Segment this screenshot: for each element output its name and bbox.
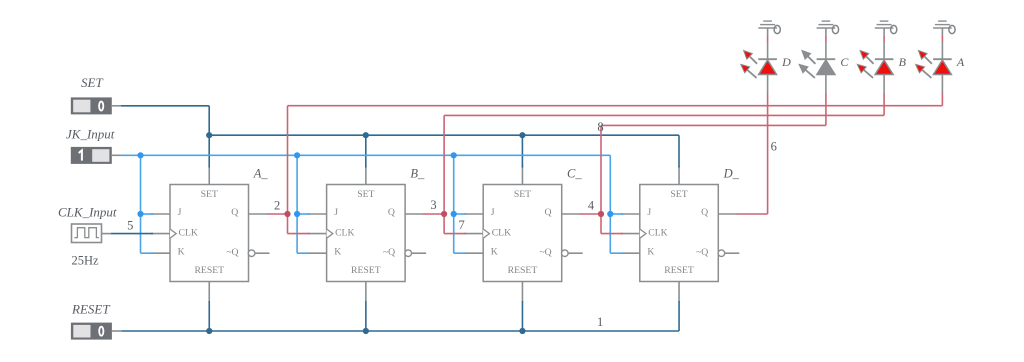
wire RESET rise to FF D bbox=[678, 301, 680, 331]
switch RESET (S3) bbox=[71, 323, 121, 339]
svg-text:K: K bbox=[647, 247, 654, 258]
svg-text:4: 4 bbox=[588, 198, 595, 212]
wire net2 top horizontal to LED A bbox=[288, 105, 943, 107]
wire net3 into CLK_C bbox=[444, 233, 466, 235]
wire net3 rise to LED B bbox=[883, 93, 885, 115]
wire JK to K pin FF A bbox=[141, 252, 154, 254]
switch SET (S1) bbox=[71, 98, 121, 114]
wire net2 into CLK_B bbox=[288, 233, 310, 235]
LED D (LED4) bbox=[741, 41, 777, 93]
svg-text:D: D bbox=[781, 55, 791, 69]
svg-text:A: A bbox=[956, 55, 965, 69]
svg-text:7: 7 bbox=[458, 218, 464, 232]
svg-text:SET: SET bbox=[81, 75, 103, 90]
svg-text:5: 5 bbox=[127, 219, 133, 233]
wire RESET bus horizontal bbox=[122, 330, 680, 332]
JK flip-flop U1 (A) bbox=[151, 166, 270, 302]
junction JK bus bbox=[294, 152, 300, 158]
svg-text:1: 1 bbox=[597, 315, 603, 329]
svg-text:Q: Q bbox=[388, 207, 395, 218]
junction RESET bus bbox=[206, 328, 212, 334]
junction SET at FF A bbox=[206, 132, 212, 138]
wire JK vertical at FF C bbox=[453, 155, 455, 253]
svg-text:~Q: ~Q bbox=[226, 247, 238, 258]
clock source V1 (square wave) bbox=[72, 224, 112, 243]
svg-text:~Q: ~Q bbox=[539, 247, 551, 258]
junction RESET bus bbox=[519, 328, 525, 334]
svg-text:CLK: CLK bbox=[335, 227, 354, 238]
wire JK to J pin FF D bbox=[610, 213, 623, 215]
svg-text:8: 8 bbox=[597, 120, 603, 134]
junction node 3 bbox=[441, 211, 447, 217]
svg-text:CLK: CLK bbox=[179, 227, 198, 238]
wire RESET rise to FF A bbox=[208, 301, 210, 331]
wire JK vertical at FF B bbox=[296, 155, 298, 253]
wire SET bus horizontal bbox=[209, 134, 679, 136]
switch JK_Input (S2) bbox=[71, 147, 121, 163]
wire JK vertical at FF D bbox=[609, 155, 611, 253]
wire Q_B output (net 3) bbox=[424, 213, 445, 215]
wire JK to J pin FF B bbox=[297, 213, 310, 215]
svg-text:SET: SET bbox=[201, 189, 218, 200]
svg-text:JK_Input: JK_Input bbox=[66, 126, 115, 141]
svg-text:2: 2 bbox=[274, 199, 280, 213]
wire RESET rise to FF B bbox=[365, 301, 367, 331]
svg-text:SET: SET bbox=[357, 189, 374, 200]
ground (net 0) above LED A bbox=[933, 21, 955, 36]
wire net6 rise to LED D bbox=[767, 93, 769, 214]
junction JK at J pin FF D bbox=[607, 211, 613, 217]
LED A (LED1) bbox=[916, 41, 952, 93]
junction RESET bus bbox=[363, 328, 369, 334]
junction JK at J pin FF A bbox=[137, 211, 143, 217]
junction JK at J pin FF B bbox=[294, 211, 300, 217]
svg-text:CLK_Input: CLK_Input bbox=[58, 205, 117, 220]
wire ground to LED D bbox=[767, 36, 769, 42]
wire JK to K pin FF C bbox=[454, 252, 467, 254]
wire JK vertical at FF A bbox=[140, 155, 142, 253]
wire JK to K pin FF D bbox=[610, 252, 623, 254]
wire net4 into CLK_D bbox=[601, 233, 623, 235]
svg-text:CLK: CLK bbox=[492, 227, 511, 238]
wire SET drop to FF D bbox=[678, 135, 680, 167]
wire Q_A output (net 2) bbox=[267, 213, 288, 215]
svg-text:Q: Q bbox=[701, 207, 708, 218]
junction SET at FF C bbox=[519, 132, 525, 138]
wire SET drop to FF B bbox=[365, 135, 367, 167]
svg-text:K: K bbox=[491, 247, 498, 258]
junction JK at J pin FF C bbox=[451, 211, 457, 217]
svg-text:6: 6 bbox=[771, 140, 777, 154]
LED C (LED3) bbox=[799, 41, 835, 93]
svg-text:SET: SET bbox=[514, 189, 531, 200]
svg-text:K: K bbox=[178, 247, 185, 258]
junction node 2 bbox=[284, 211, 290, 217]
svg-text:J: J bbox=[647, 207, 651, 218]
svg-text:D_: D_ bbox=[723, 167, 740, 181]
wire net4 down to CLK_D bbox=[600, 214, 602, 234]
wire net4 rise to LED C bbox=[825, 93, 827, 125]
ground (net 0) above LED D bbox=[758, 21, 780, 36]
wire net2 rise to LED A bbox=[941, 93, 943, 106]
svg-text:A_: A_ bbox=[253, 167, 269, 181]
wire JK to K pin FF B bbox=[297, 252, 310, 254]
svg-text:RESET: RESET bbox=[194, 265, 224, 276]
JK flip-flop U2 (B) bbox=[308, 166, 427, 302]
wire SET switch to corner bbox=[121, 105, 209, 107]
svg-text:3: 3 bbox=[430, 198, 436, 212]
svg-text:CLK: CLK bbox=[648, 227, 667, 238]
junction JK bus bbox=[137, 152, 143, 158]
svg-text:Q: Q bbox=[231, 207, 238, 218]
LED B (LED2) bbox=[857, 41, 893, 93]
wire net3 down to CLK_C bbox=[443, 214, 445, 234]
wire Q_D output (net 6) bbox=[737, 213, 768, 215]
wire net3 top horizontal to LED B bbox=[444, 114, 884, 116]
svg-text:RESET: RESET bbox=[71, 301, 110, 316]
svg-text:~Q: ~Q bbox=[696, 247, 708, 258]
svg-text:C: C bbox=[840, 55, 849, 69]
svg-text:K: K bbox=[334, 247, 341, 258]
wire JK to J pin FF A bbox=[141, 213, 154, 215]
wire ground to LED C bbox=[825, 36, 827, 42]
svg-text:J: J bbox=[178, 207, 182, 218]
svg-text:B: B bbox=[899, 55, 907, 69]
wire RESET rise to FF C bbox=[521, 301, 523, 331]
wire net3 vertical up bbox=[443, 115, 445, 214]
wire ground to LED A bbox=[941, 36, 943, 42]
wire SET vertical at FF A bbox=[208, 106, 210, 168]
junction SET at FF B bbox=[363, 132, 369, 138]
svg-text:25Hz: 25Hz bbox=[72, 253, 100, 267]
ground (net 0) above LED B bbox=[875, 21, 897, 36]
svg-text:J: J bbox=[491, 207, 495, 218]
wire JK to J pin FF C bbox=[454, 213, 467, 215]
svg-text:SET: SET bbox=[670, 189, 687, 200]
svg-text:RESET: RESET bbox=[508, 265, 538, 276]
svg-text:C_: C_ bbox=[567, 167, 582, 181]
wire JK_Input bus horizontal bbox=[121, 154, 610, 156]
junction node 4 bbox=[598, 211, 604, 217]
svg-text:Q: Q bbox=[545, 207, 552, 218]
wire CLK_Input to FF A (net 5) bbox=[111, 233, 153, 235]
wire SET drop to FF C bbox=[521, 135, 523, 167]
JK flip-flop U4 (D) bbox=[621, 166, 740, 302]
JK flip-flop U3 (C) bbox=[464, 166, 583, 302]
ground (net 0) above LED C bbox=[817, 21, 839, 36]
svg-text:B_: B_ bbox=[410, 167, 425, 181]
wire net2 down to CLK_B bbox=[287, 214, 289, 234]
wire ground to LED B bbox=[883, 36, 885, 42]
svg-text:J: J bbox=[334, 207, 338, 218]
wire net4 top horizontal to LED C bbox=[601, 124, 826, 126]
wire net4 vertical up bbox=[600, 125, 602, 214]
junction JK bus bbox=[451, 152, 457, 158]
svg-text:~Q: ~Q bbox=[383, 247, 395, 258]
svg-text:RESET: RESET bbox=[351, 265, 381, 276]
wire Q_C output (net 4) bbox=[580, 213, 601, 215]
wire net2 vertical up bbox=[287, 106, 289, 214]
svg-text:RESET: RESET bbox=[664, 265, 694, 276]
